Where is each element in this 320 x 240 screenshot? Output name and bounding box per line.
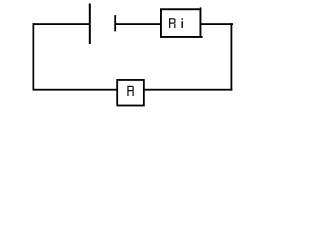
wire bottom-left horizontal segment — [33, 89, 118, 91]
wire box Ri to right corner — [200, 23, 233, 25]
resistor box Ri (internal resistance) — [161, 9, 201, 37]
wire battery to box Ri — [115, 23, 162, 25]
wire top-left horizontal segment — [33, 23, 91, 25]
label R i — [169, 18, 183, 28]
wire left vertical segment — [33, 23, 35, 90]
label R — [127, 86, 133, 96]
resistor box R (load) — [117, 80, 144, 106]
Ri box corner ticks — [200, 7, 202, 9]
battery short plate (negative) — [114, 15, 116, 31]
wire right vertical segment — [231, 23, 233, 90]
wire bottom-right horizontal segment — [144, 89, 233, 91]
battery long plate (positive) — [89, 4, 91, 45]
